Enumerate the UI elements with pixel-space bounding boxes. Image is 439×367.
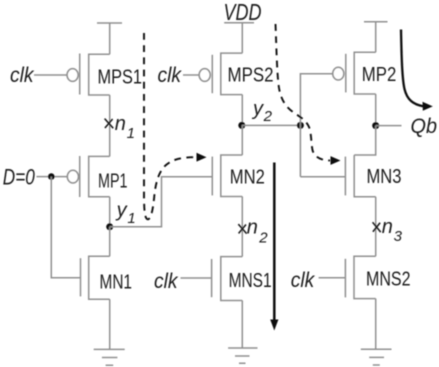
svg-text:MN3: MN3 <box>367 166 402 188</box>
dashed annotation arrow stage1 (clk path into MN2) <box>144 33 196 219</box>
VDD power bar middle <box>224 23 254 53</box>
svg-text:n: n <box>247 217 258 239</box>
svg-text:clk: clk <box>291 269 316 292</box>
wire MPS1 source to MP1 drain (node n1) <box>109 95 111 156</box>
D input wire <box>37 176 68 178</box>
solid annotation arrow discharge (MN2 branch) <box>273 163 276 322</box>
svg-text:MNS1: MNS1 <box>229 270 272 292</box>
wire D node down to MN1 gate <box>51 177 80 278</box>
node Qb junction dot <box>372 122 379 129</box>
dashed annotation arrow stage2 (y2 to MN3) <box>276 24 331 161</box>
clk input wire of MNS2 <box>319 277 346 279</box>
wire MNS1 source to ground <box>241 301 243 349</box>
wire MP1 source to node y1 <box>109 197 111 227</box>
svg-text:y: y <box>251 98 264 120</box>
wire Qb output <box>376 125 402 127</box>
junction dot y2 right <box>297 122 304 129</box>
wire y2 down to MN2 drain <box>241 125 243 155</box>
wire MN3 gate <box>300 176 345 178</box>
wire MN3 drain up to Qb <box>354 126 376 155</box>
svg-text:y: y <box>115 199 128 221</box>
svg-text:MN2: MN2 <box>230 166 265 188</box>
svg-text:clk: clk <box>158 64 183 87</box>
arrowhead stage1 <box>197 153 207 162</box>
node n2 cross mark <box>238 224 246 234</box>
ground right <box>361 349 392 365</box>
svg-text:clk: clk <box>10 64 35 87</box>
arrowhead stage2 <box>331 156 341 165</box>
ground middle <box>228 348 257 363</box>
label n2 <box>247 217 269 247</box>
svg-text:n: n <box>115 113 126 135</box>
label n1 <box>115 113 135 142</box>
node n3 cross mark <box>373 222 381 232</box>
solid annotation arrow output (Qb transition) <box>401 30 423 107</box>
label y2 <box>251 98 273 125</box>
wire MN3 source to MNS2 drain (node n3) <box>375 197 377 256</box>
svg-text:n: n <box>382 216 393 238</box>
transistor MN3 <box>345 155 375 197</box>
label y1 <box>115 199 136 226</box>
svg-text:2: 2 <box>258 230 268 247</box>
svg-text:MPS2: MPS2 <box>228 64 274 86</box>
wire MN2 source to MNS1 drain (node n2) <box>241 197 243 257</box>
svg-text:MPS1: MPS1 <box>98 67 143 89</box>
wire y2 net horizontal <box>242 124 301 126</box>
wire y1 to MN2 gate <box>110 177 213 227</box>
svg-text:2: 2 <box>263 108 273 125</box>
junction dot D node <box>48 173 55 180</box>
svg-text:MP2: MP2 <box>362 64 397 86</box>
transistor MPS1 <box>67 54 110 96</box>
transistor MP2 <box>333 52 376 94</box>
node n1 cross mark <box>105 119 114 129</box>
svg-text:MN1: MN1 <box>100 272 133 294</box>
svg-text:clk: clk <box>154 270 179 293</box>
wire MNS2 source to ground <box>375 299 377 350</box>
node y2 junction dot <box>238 122 245 129</box>
svg-text:VDD: VDD <box>224 0 262 25</box>
svg-text:D=0: D=0 <box>3 165 36 190</box>
wire MP2 gate to y2 <box>300 74 332 177</box>
clk input wire of MPS2 <box>183 74 199 76</box>
label n3 <box>382 216 403 245</box>
transistor MNS2 <box>345 256 375 298</box>
svg-text:MNS2: MNS2 <box>366 268 411 290</box>
wire y1 down to MN1 drain <box>109 227 111 256</box>
svg-text:3: 3 <box>394 228 403 245</box>
node y1 junction dot <box>106 223 113 230</box>
ground left <box>94 349 125 365</box>
svg-text:1: 1 <box>127 210 135 227</box>
transistor MPS2 <box>199 53 242 95</box>
transistor MN2 <box>212 155 242 197</box>
clk input wire of MPS1 <box>34 74 67 76</box>
VDD power bar right <box>364 22 388 53</box>
transistor MN1 <box>81 256 110 299</box>
arrowhead output arrow <box>423 102 433 111</box>
transistor MP1 <box>67 156 109 197</box>
svg-text:Qb: Qb <box>411 115 438 138</box>
VDD power bar left <box>97 23 122 54</box>
wire MPS2 drain to node y2 <box>241 95 243 126</box>
svg-text:1: 1 <box>127 125 135 142</box>
wire MP2 drain to Qb node <box>375 94 377 126</box>
clk input wire of MNS1 <box>181 277 212 279</box>
transistor MNS1 <box>212 257 243 301</box>
svg-text:MP1: MP1 <box>98 170 128 192</box>
arrowhead discharge arrow <box>270 320 278 331</box>
wire MN1 source to ground <box>109 299 111 349</box>
